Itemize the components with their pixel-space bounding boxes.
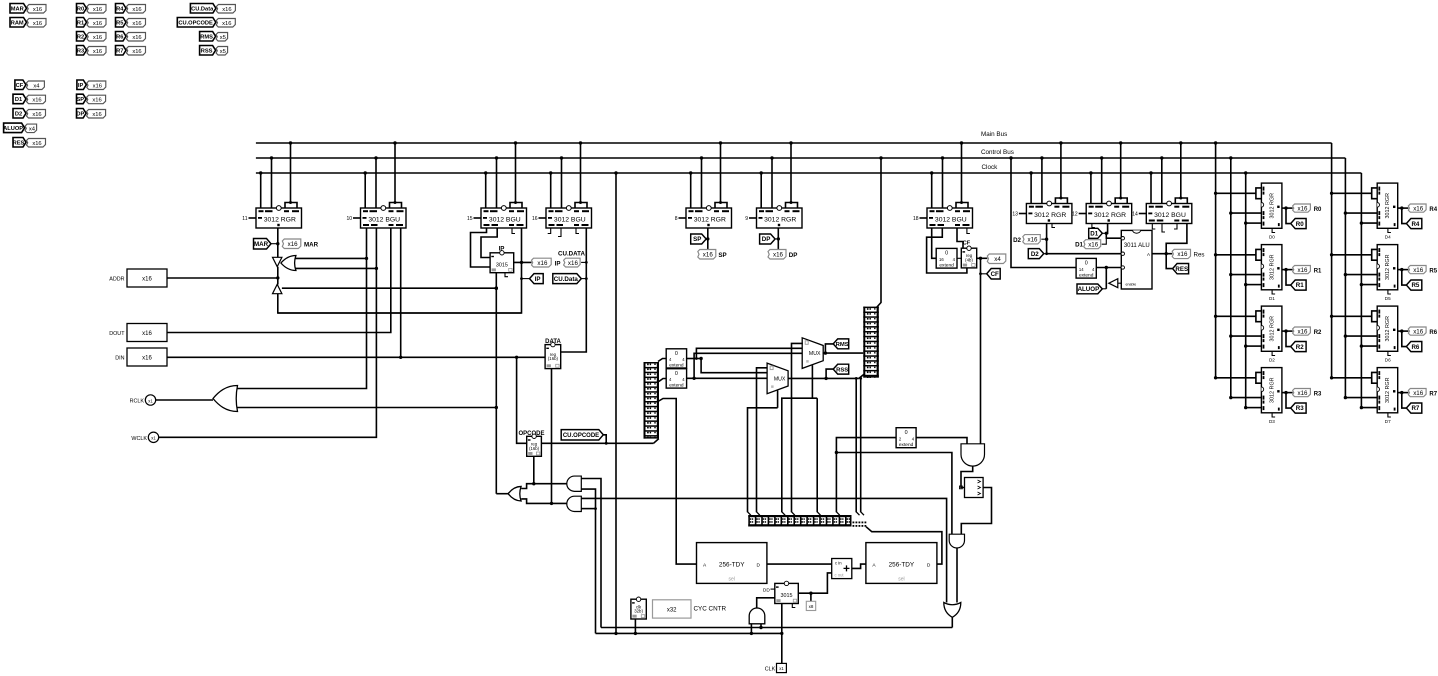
svg-text:D1: D1 [1075,242,1083,249]
svg-text:x5: x5 [220,35,226,41]
wire OR input A [295,257,366,259]
width tag x16 [1023,235,1041,244]
svg-text:x16: x16 [142,356,152,362]
svg-text:DIN: DIN [115,356,124,362]
wire extend A out [687,358,702,360]
wire chip4 pin4 down to DATA reg [561,228,587,352]
svg-text:R2: R2 [77,34,84,40]
wire SP chip pin down [707,228,709,250]
4-to-4 extend box [666,349,686,368]
width tag x16 [1293,389,1311,397]
bottom pin [1388,351,1391,355]
svg-text:D1: D1 [1090,231,1098,238]
svg-text:x16: x16 [1298,390,1309,397]
width tag x16 [87,81,106,90]
svg-text:x16: x16 [703,251,714,258]
2-to-4 extend box [896,428,916,448]
svg-text:x16: x16 [222,7,231,13]
svg-text:R0: R0 [77,6,84,12]
svg-text:3012 RGR: 3012 RGR [1385,377,1391,403]
width tag x16 [768,250,786,260]
svg-text:D0: D0 [1269,235,1275,240]
svg-text:3012 RGR: 3012 RGR [1269,316,1275,342]
wire AND2 out to OR [521,499,567,504]
width tag x16 [27,5,46,14]
wire extend to AND gate [916,438,967,444]
svg-text:3012 RGR: 3012 RGR [1385,316,1391,342]
width tag x16 [1293,266,1311,274]
bracket [956,203,968,209]
control wire [1345,335,1377,337]
legend D2 [13,109,26,119]
Clock drop col1 [1245,173,1247,408]
width tag x16 [1408,389,1426,397]
bus drop wires [550,173,552,208]
width tag x4 [26,81,44,90]
output wire [1398,269,1409,271]
tail bit wires [855,378,857,512]
svg-text:16: 16 [532,216,538,222]
wire D1 chip pin down [1106,224,1121,239]
svg-text:0: 0 [945,251,948,257]
IC 3012 BGU (10) [353,217,361,219]
width tag x16 [1172,249,1190,258]
clock wire [1246,407,1262,409]
wire chip3 pin4 down to IP net [278,228,522,313]
svg-text:extend: extend [1079,273,1094,279]
MUX [802,338,823,369]
bracket [390,203,402,209]
Main drop col2 [1331,143,1333,378]
chip4 pin3 NC [576,228,579,234]
wire 3015 bottom pin down [495,273,497,494]
Main Bus wire [256,142,1332,144]
comb tail dots [853,522,855,524]
tunnel R1 [1291,280,1306,290]
wire 3015 to c-in [798,573,831,593]
svg-text:x4: x4 [994,256,1001,263]
output WCLK [148,432,158,442]
bus drop wires [1150,173,1152,204]
wire WCLK [159,228,377,437]
legend CU.OPCODE [177,18,216,28]
chip4 pin1 NC [548,228,551,234]
output wire [1398,392,1409,394]
svg-text:3012 BGU: 3012 BGU [554,217,586,224]
wire to tunnel [1402,208,1407,224]
wire extend B out [687,377,768,379]
14-to-4 extend box [1076,258,1096,278]
width tag x4 [987,254,1006,264]
IC 3012 BGU (18) [920,217,928,219]
width tag x16 [216,5,235,14]
wire AND1 in1 [581,479,601,628]
tunnel R4 [1406,219,1421,229]
svg-text:ALUOP: ALUOP [3,126,23,132]
bus drop wires [260,173,262,208]
AND gate (down) [949,534,964,548]
Clock bus drop mid (to bottom rail) [615,173,617,633]
MUX [767,363,788,394]
svg-text:3012 BGU: 3012 BGU [489,217,521,224]
svg-text:R5: R5 [1429,269,1437,275]
3015 bottom pin2 NC [505,273,508,277]
svg-text:x16: x16 [93,84,102,90]
wire to AND-down chain [836,453,952,535]
wire driver to ADDR [278,294,522,313]
svg-text:D1: D1 [1269,296,1275,301]
svg-text:extend: extend [899,442,914,448]
svg-text:RES: RES [1175,266,1188,273]
3015 pin NC [792,604,795,608]
wire chip10 last pin to Res node [1166,224,1187,254]
branch up to MUX2 in2 [694,353,802,378]
width tag x4 [25,124,36,133]
svg-text:MUX: MUX [809,351,821,357]
svg-text:3012 RGR: 3012 RGR [264,217,296,224]
IC 3012 RGR (9) [749,217,757,219]
svg-text:3012 RGR: 3012 RGR [1269,193,1275,219]
svg-text:R5: R5 [116,20,123,26]
clock wire [1361,407,1377,409]
svg-text:R4: R4 [1429,207,1437,213]
16-to-4 extend box [936,248,957,268]
IC 3012 RGR (11) [249,217,257,219]
svg-text:DP: DP [762,236,771,243]
svg-text:RMS: RMS [836,342,849,348]
output wire [1282,269,1293,271]
svg-text:(16b): (16b) [529,446,540,451]
width tag x16 [1293,204,1311,212]
tunnel R5 [1406,280,1421,290]
bottom pin [1388,413,1391,417]
wire ALU output [1152,253,1172,255]
svg-text:extend: extend [939,263,954,269]
comparator box [965,478,984,498]
wire DIN tap to OPCODE reg input [517,357,527,443]
bracket wire [1216,192,1256,194]
wire chip3 pin2 loop [481,228,497,258]
svg-text:extend: extend [669,383,684,389]
svg-text:x16: x16 [132,21,141,27]
svg-text:3012 BGU: 3012 BGU [935,217,967,224]
chip4 pin2 NC [558,228,561,237]
svg-text:x16: x16 [93,7,102,13]
comb pin ticks [748,512,751,515]
bracket wire [1216,254,1256,256]
width tag x16 [282,239,301,249]
svg-text:sel: sel [898,577,904,583]
wire sel elbow A [748,408,778,512]
svg-text:CF: CF [963,240,971,246]
svg-text:(4b): (4b) [965,258,973,263]
buffer triangle (down) [273,257,282,266]
svg-text:MUX: MUX [774,376,786,382]
wire OR input B [295,267,376,269]
legend D1 [13,94,26,104]
svg-text:Clock: Clock [982,164,999,171]
svg-text:16: 16 [939,257,944,262]
svg-text:x16: x16 [288,241,299,248]
svg-text:R1: R1 [1314,269,1322,275]
svg-text:extend: extend [669,362,684,368]
svg-text:D2: D2 [1269,358,1275,363]
tunnel DP [760,234,776,244]
width tag x16 [1408,266,1426,274]
svg-text:D4: D4 [1385,235,1391,240]
wire cmp out [961,488,991,535]
register reg (16b) [527,436,542,456]
svg-text:R6: R6 [1429,330,1437,336]
svg-text:R2: R2 [1296,344,1304,351]
svg-text:x4: x4 [29,127,36,133]
svg-text:CU.Data: CU.Data [554,276,579,283]
output wire [1282,330,1293,332]
svg-text:x16: x16 [132,35,141,41]
RSS elbow [826,369,833,378]
svg-text:Control Bus: Control Bus [981,149,1014,156]
wire output right at y288 [282,287,496,289]
tunnel R6 [1406,342,1421,352]
svg-text:256-TDY: 256-TDY [889,562,915,569]
svg-text:0: 0 [905,430,908,436]
svg-text:9: 9 [745,216,748,222]
bracket wire [1216,315,1256,317]
svg-text:RMS: RMS [200,34,213,40]
bracket wire [1332,315,1372,317]
svg-text:Main Bus: Main Bus [981,131,1007,138]
wire extend out to ALU [1096,267,1121,269]
svg-text:32b): 32b) [634,609,643,614]
svg-text:11: 11 [242,216,247,222]
riser mid [816,398,818,512]
wire chip7 pin1 to extend [932,228,937,258]
svg-text:IP: IP [555,260,561,267]
svg-text:MAR: MAR [254,241,269,248]
svg-text:10: 10 [346,216,352,222]
wire chip3 pin3 NC [512,228,515,234]
width tag x16 [87,5,106,14]
legend DP [77,109,87,119]
clock wire [1361,284,1377,286]
width tag x5 [216,33,228,42]
svg-text:3015: 3015 [496,263,508,269]
clock wire [1361,222,1377,224]
IC 3012 BGU (14) [1139,213,1147,215]
wire reg4b out [957,257,961,259]
svg-text:R7: R7 [116,48,123,54]
tunnel SP [691,234,707,244]
wire TDY1 out to adder [767,563,832,565]
svg-text:x8: x8 [809,604,814,609]
wire OR out [496,493,508,495]
svg-text:D7: D7 [1385,419,1391,424]
wire x8 probe [810,593,812,601]
lower rail [596,632,782,634]
bottom pin [1272,290,1275,294]
clock wire [1361,345,1377,347]
wire ADDR to MAR node [167,277,278,279]
svg-text:15: 15 [467,216,473,222]
svg-text:R6: R6 [1411,344,1419,351]
bracket [1175,198,1187,204]
wire to tunnel [1402,331,1407,347]
svg-text:RSS: RSS [836,367,848,373]
wire DP chip pin down [777,228,779,250]
register [490,253,514,273]
wire to RES tunnel [1166,254,1172,269]
Control Bus wire [256,157,1346,159]
legend MAR [10,4,27,14]
wire AND2 in2 [581,508,595,510]
bracket [715,203,727,209]
svg-text:R1: R1 [77,20,84,26]
legend R3 [77,46,87,56]
register clk 32b) [631,599,646,619]
svg-text:R4: R4 [1411,221,1419,228]
AND gate (mirrored) [567,496,582,511]
chip10 other pins NC [1152,224,1155,230]
tunnel R3 [1291,403,1306,413]
output RCLK [145,395,155,405]
bus drop wires [1090,173,1092,204]
tunnel R7 [1406,403,1421,413]
svg-text:x16: x16 [222,21,231,27]
svg-text:x16: x16 [92,98,101,104]
svg-text:R1: R1 [1296,282,1304,289]
wire tag to net [581,261,586,263]
svg-text:3012 RGR: 3012 RGR [1094,212,1126,219]
bracket [510,203,522,209]
svg-text:x16: x16 [93,49,102,55]
bracket [575,203,587,209]
Clock wire [256,172,1362,174]
svg-text:x16: x16 [93,21,102,27]
width tag x16 [1084,240,1101,249]
svg-text:x16: x16 [142,277,152,283]
width tag x16 [216,19,235,28]
bottom pin [1388,228,1391,232]
svg-text:x16: x16 [92,112,101,118]
Main drop col1 [1215,143,1217,378]
wire chip1 bottom pin to MAR node [277,228,279,258]
svg-text:SP: SP [718,252,726,259]
svg-text:IP: IP [535,276,541,283]
bus drop wires [364,173,366,208]
tunnel CU.OPCODE [561,430,603,440]
width tag x16 [87,110,106,119]
wire OPCODE reg out to splitter [541,442,653,444]
wire to tunnel [1286,393,1291,409]
svg-text:13: 13 [1012,212,1018,218]
svg-text:CF: CF [991,271,999,278]
width tag x16 [87,47,106,56]
buffer triangle (up) [273,284,282,293]
AND gate (down) [961,444,985,466]
clock wire [1246,345,1262,347]
svg-text:x16: x16 [93,35,102,41]
svg-text:3012 RGR: 3012 RGR [764,217,796,224]
width tag x16 [532,258,552,267]
svg-text:x16: x16 [132,7,141,13]
control drop to comb [877,158,882,308]
wire funnel1 out [956,548,958,603]
svg-text:R4: R4 [116,6,124,12]
wire MUX2 in0 riser from comb [792,343,803,512]
svg-text:14: 14 [1079,267,1084,272]
svg-text:12: 12 [1072,212,1078,218]
Clock drop col2 [1360,173,1362,408]
wire D2 to ALU [1047,253,1122,255]
svg-text:x4: x4 [33,84,40,90]
svg-text:x1: x1 [779,666,784,671]
width tag x16 [87,95,106,104]
tunnel D1 [1089,228,1103,238]
tunnel CF [987,269,1001,280]
svg-text:256-TDY: 256-TDY [719,562,745,569]
svg-text:CU.OPCODE: CU.OPCODE [563,433,599,439]
svg-text:A: A [1147,252,1150,257]
svg-text:0: 0 [675,351,678,357]
svg-text:3012 RGR: 3012 RGR [1034,212,1066,219]
svg-text:x16: x16 [773,251,784,258]
svg-text:x16: x16 [33,7,42,13]
width tag x16 [127,47,146,56]
wire RCLK OR input B [238,407,497,409]
width tag x16 [1293,327,1311,335]
tunnel D2 [1028,249,1044,259]
svg-text:x32: x32 [667,608,677,614]
tunnel IP [530,274,544,284]
output wire [1398,207,1409,209]
OR gate (mirrored) [281,256,296,271]
branch up to MUX2 [696,348,803,358]
tunnel R2 [1291,342,1306,352]
width tag x5 [216,47,228,56]
chip7 pin4 NC [967,228,970,234]
svg-text:SP: SP [77,97,85,103]
wire OPCODE reg bottom down [533,456,535,483]
wire to tunnel [1286,270,1291,286]
4-to-4 extend box [666,369,686,388]
wire DOUT [167,228,391,333]
svg-text:x16: x16 [1413,205,1424,212]
bracket [1055,198,1067,204]
svg-text:3012 BGU: 3012 BGU [1154,212,1186,219]
IC 3012 RGR (13) [1019,213,1027,215]
svg-text:RCLK: RCLK [130,399,145,405]
svg-text:D6: D6 [1385,358,1391,363]
wire to tunnel [1286,208,1291,224]
svg-text:x16: x16 [1298,328,1309,335]
svg-text:3012 RGR: 3012 RGR [1269,254,1275,280]
wire funnel2 out [951,617,953,627]
width tag x16 [87,19,106,28]
svg-text:RES: RES [13,140,25,146]
riser from comb-H [836,438,896,513]
width tag x16 [127,5,146,14]
probe x8 [806,601,815,610]
control wire [1231,212,1262,214]
legend ALUOP [4,123,25,133]
splitter comb (vertical) [644,362,646,439]
svg-text:R7: R7 [1429,392,1437,398]
svg-text:D2: D2 [15,111,22,117]
svg-text:R3: R3 [77,48,84,54]
svg-text:x16: x16 [568,260,579,267]
svg-text:x16: x16 [32,141,41,147]
wire to tunnel [1402,270,1407,286]
